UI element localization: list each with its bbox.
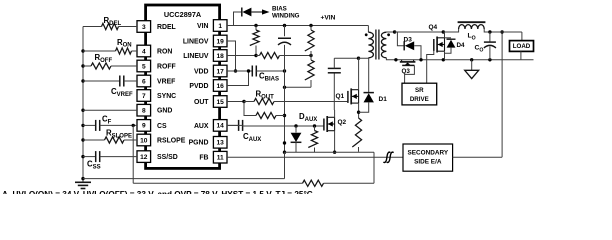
wire Q1 gate riser bbox=[347, 101, 349, 103]
svg-text:Q1: Q1 bbox=[336, 93, 345, 100]
capacitor CF pin9 bbox=[81, 115, 137, 131]
wire FB line pin11 bbox=[227, 156, 403, 158]
label +VIN bbox=[321, 14, 336, 21]
label BIAS WINDING bbox=[272, 6, 300, 20]
svg-text:11: 11 bbox=[217, 155, 224, 162]
label DAUX bbox=[299, 112, 317, 123]
transformer T1 secondary winding bbox=[381, 32, 390, 58]
resistor RON pin4 bbox=[81, 38, 137, 54]
capacitor Cclamp bbox=[328, 58, 341, 73]
wire GND vertical mid bbox=[283, 71, 286, 179]
transistor Q3 SR fet bbox=[400, 60, 416, 75]
ground symbol secondary bbox=[465, 60, 479, 79]
svg-text:BIAS: BIAS bbox=[272, 6, 287, 13]
wire E/A output to Vout sense bbox=[453, 30, 504, 157]
svg-text:4: 4 bbox=[142, 48, 146, 55]
IC pin boxes with numbers and pin names bbox=[137, 20, 227, 163]
wire Q2 drain to clamp cap bbox=[333, 73, 335, 118]
wire pin18 LINEUV to node X bbox=[227, 54, 258, 57]
svg-text:DRIVE: DRIVE bbox=[410, 96, 429, 103]
wire OUT pin15 to gate line bbox=[227, 100, 246, 103]
svg-text:19: 19 bbox=[217, 38, 225, 45]
resistor ROUT upper bbox=[244, 98, 348, 104]
svg-text:FB: FB bbox=[199, 155, 208, 162]
box LOAD bbox=[510, 32, 534, 60]
wire Q3 gate to SR DRIVE bbox=[405, 65, 415, 83]
isolation barrier marks on FB bbox=[383, 152, 393, 162]
resistor divider chain lower half bbox=[305, 56, 314, 88]
diode D1 across Q1 bbox=[359, 58, 388, 112]
diode DAUX to PGND bbox=[291, 126, 302, 152]
svg-text:Q2: Q2 bbox=[338, 119, 347, 126]
svg-text:VREF: VREF bbox=[157, 78, 175, 85]
resistor RSLOPE pin10 bbox=[81, 129, 137, 144]
wire PGND rail bbox=[285, 152, 375, 183]
node CS junction and vertical bbox=[132, 124, 135, 184]
svg-text:ROFF: ROFF bbox=[157, 63, 176, 70]
wire Q4 source to rail bbox=[444, 51, 446, 60]
svg-text:D1: D1 bbox=[379, 96, 388, 103]
svg-text:15: 15 bbox=[217, 99, 225, 106]
wire pin16 PVDD riser bbox=[227, 69, 250, 85]
wire secondary top rail bbox=[395, 30, 457, 33]
svg-text:PGND: PGND bbox=[189, 140, 209, 147]
svg-text:SECONDARY: SECONDARY bbox=[407, 149, 448, 156]
inductor LO bbox=[457, 22, 490, 41]
svg-text:D4: D4 bbox=[457, 42, 466, 49]
transistor Q2 bbox=[324, 116, 347, 132]
svg-text:3: 3 bbox=[142, 24, 146, 31]
wire chain bottom to GND vertical bbox=[283, 86, 311, 89]
node dots on +VIN rail bbox=[254, 24, 312, 27]
svg-text:PVDD: PVDD bbox=[189, 83, 208, 90]
wire primary bottom lead bbox=[359, 57, 369, 59]
diode D3 bbox=[395, 32, 421, 60]
box SR DRIVE bbox=[402, 83, 437, 105]
svg-text:RSLOPE: RSLOPE bbox=[157, 137, 186, 144]
capacitor CO bbox=[475, 32, 496, 60]
svg-text:8: 8 bbox=[142, 108, 146, 115]
svg-text:SYNC: SYNC bbox=[157, 93, 176, 100]
capacitor input bypass on +VIN bbox=[278, 26, 291, 72]
wire Q2 source to PGND rail bbox=[333, 131, 336, 154]
svg-text:CS: CS bbox=[157, 123, 167, 130]
wire Q4 drain bbox=[444, 32, 446, 38]
wire Q4 gate to SR DRIVE bbox=[427, 50, 434, 83]
svg-text:VIN: VIN bbox=[197, 23, 209, 30]
svg-text:SIDE E/A: SIDE E/A bbox=[414, 159, 442, 166]
svg-text:5: 5 bbox=[142, 63, 146, 70]
svg-text:9: 9 bbox=[142, 123, 146, 130]
svg-text:VDD: VDD bbox=[194, 68, 209, 75]
wire GND bus vertical left bbox=[82, 27, 84, 182]
svg-text:RON: RON bbox=[157, 48, 172, 55]
svg-text:AUX: AUX bbox=[194, 123, 209, 130]
box SECONDARY SIDE E/A bbox=[403, 144, 453, 171]
label CAUX bbox=[243, 132, 261, 143]
capacitor CSS pin12 bbox=[81, 151, 137, 170]
svg-text:+VIN: +VIN bbox=[321, 14, 336, 21]
svg-text:7: 7 bbox=[142, 93, 146, 100]
resistor RDEL pin3 bbox=[83, 16, 137, 29]
wire pin19 LINEOV riser bbox=[227, 41, 237, 73]
diode D-bias to bias winding bbox=[234, 8, 270, 26]
svg-text:Q3: Q3 bbox=[402, 68, 411, 75]
svg-text:14: 14 bbox=[217, 123, 225, 130]
resistor divider upper (VIN to LINEUV node) bbox=[250, 26, 259, 56]
resistor R-LINE horizontal bbox=[256, 52, 313, 58]
svg-text:SS/SD: SS/SD bbox=[157, 154, 178, 161]
wire clamp top to primary bottom bbox=[334, 57, 360, 60]
svg-text:10: 10 bbox=[140, 137, 148, 144]
svg-text:D3: D3 bbox=[404, 37, 413, 44]
clipped note text bottom bbox=[2, 190, 313, 199]
svg-text:RDEL: RDEL bbox=[157, 24, 176, 31]
wire secondary top lead bbox=[386, 30, 396, 33]
wire CS sense line bbox=[133, 180, 374, 186]
svg-text:1: 1 bbox=[218, 23, 222, 30]
svg-text:Q4: Q4 bbox=[429, 24, 438, 31]
label ROUT bbox=[256, 90, 275, 101]
IC U1 UCC2897A PWM controller body bbox=[146, 5, 220, 168]
wire Q1 source node bbox=[357, 103, 360, 118]
wire output node bbox=[484, 30, 522, 33]
wire AUX gate line bbox=[243, 124, 324, 127]
capacitor CAUX pin14 bbox=[227, 120, 243, 131]
svg-text:13: 13 bbox=[217, 140, 225, 147]
wire +VIN rail from pin1 bbox=[227, 26, 368, 33]
svg-text:SR: SR bbox=[415, 87, 424, 94]
svg-text:16: 16 bbox=[217, 83, 225, 90]
svg-text:LINEOV: LINEOV bbox=[183, 38, 209, 45]
svg-text:12: 12 bbox=[140, 154, 148, 161]
capacitor CBIAS on VDD wire bbox=[227, 66, 286, 83]
svg-text:A. UVLO(ON) = 34 V, UVLO(OFF): A. UVLO(ON) = 34 V, UVLO(OFF) = 33 V, an… bbox=[2, 190, 313, 194]
wire output return rail bbox=[394, 58, 533, 61]
wire GND pin8 bbox=[81, 109, 137, 112]
wire GND rail lower-left bbox=[81, 177, 284, 180]
svg-text:LOAD: LOAD bbox=[513, 43, 531, 50]
capacitor CVREF pin6 bbox=[81, 76, 137, 98]
resistor ROUT lower parallel bbox=[244, 102, 285, 119]
resistor divider chain upper half bbox=[305, 26, 314, 56]
svg-text:OUT: OUT bbox=[194, 99, 209, 106]
resistor RAUX pulldown bbox=[308, 126, 317, 152]
svg-text:WINDING: WINDING bbox=[272, 13, 300, 20]
resistor ROFF pin5 bbox=[81, 53, 137, 69]
transformer T1 core bbox=[376, 30, 379, 60]
transistor Q1 bbox=[336, 88, 359, 104]
svg-text:GND: GND bbox=[157, 108, 172, 115]
svg-text:17: 17 bbox=[217, 68, 225, 75]
wire Q1 drain to primary bbox=[358, 58, 360, 89]
svg-text:18: 18 bbox=[217, 53, 225, 60]
svg-text:6: 6 bbox=[142, 78, 146, 85]
svg-text:UCC2897A: UCC2897A bbox=[164, 10, 202, 19]
resistor RCS Q1 source to PGND bbox=[352, 118, 361, 152]
ground symbol bottom-left bbox=[75, 179, 91, 189]
svg-text:LINEUV: LINEUV bbox=[183, 53, 209, 60]
transformer T1 primary winding bbox=[365, 32, 374, 58]
transistor Q4 bbox=[429, 24, 445, 53]
wire secondary bottom lead bbox=[386, 58, 396, 60]
diode D4 across Q4 bbox=[445, 38, 466, 53]
